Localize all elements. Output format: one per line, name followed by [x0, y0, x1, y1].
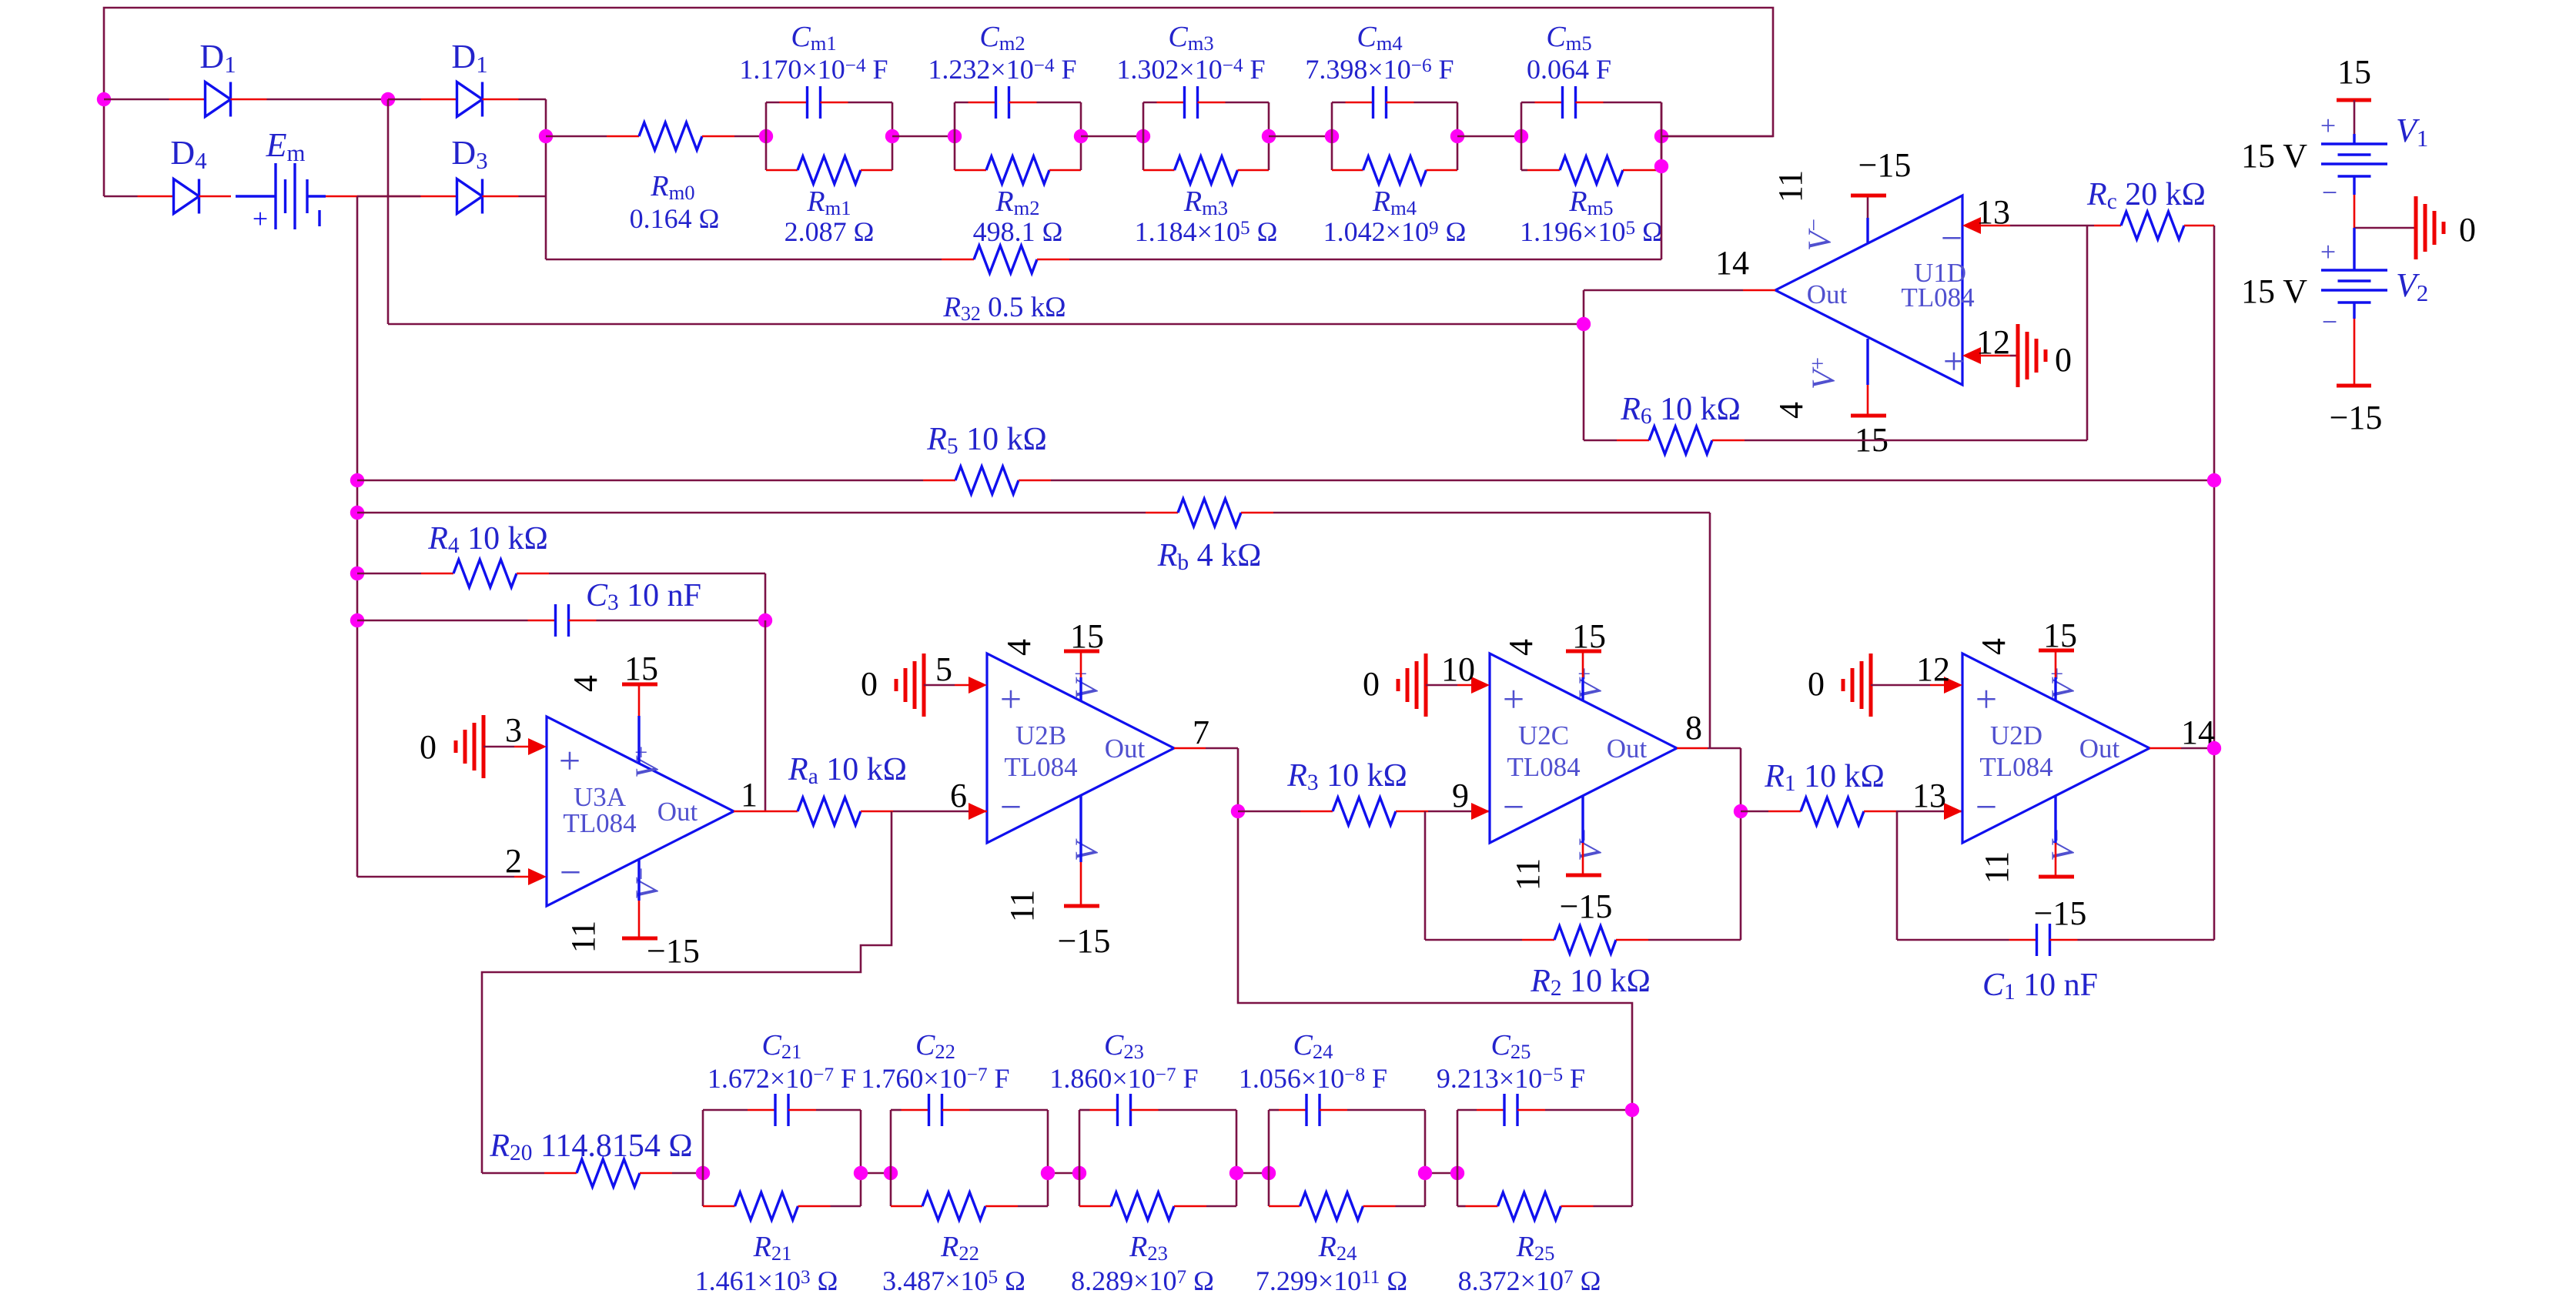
- wire Em minus vertical: [356, 196, 359, 877]
- svg-text:V−: V−: [1069, 829, 1106, 861]
- svg-text:R24: R24: [1318, 1231, 1357, 1265]
- U2C V- supply pin: [1581, 796, 1584, 843]
- svg-text:−: −: [1000, 785, 1022, 828]
- svg-text:Rm4: Rm4: [1372, 186, 1417, 219]
- capacitor Cm3: [1142, 102, 1145, 136]
- svg-text:1.184×105 Ω: 1.184×105 Ω: [1135, 216, 1278, 247]
- resistor R6: [1584, 440, 1617, 442]
- wire C1 left branch: [1896, 811, 1899, 940]
- svg-text:Cm4: Cm4: [1357, 21, 1402, 55]
- svg-text:7.398×10−6 F: 7.398×10−6 F: [1305, 54, 1454, 85]
- node dot bottom cell 2 left: [884, 1166, 898, 1180]
- svg-text:R25: R25: [1516, 1231, 1555, 1265]
- svg-text:1.672×10−7 F: 1.672×10−7 F: [708, 1063, 856, 1094]
- svg-text:V+: V+: [2046, 667, 2082, 700]
- battery V1: [2354, 100, 2356, 134]
- wire node 7 down: [1238, 748, 1632, 1110]
- svg-text:−: −: [560, 851, 581, 894]
- svg-text:D1: D1: [199, 38, 236, 78]
- svg-text:15: 15: [1572, 617, 1606, 655]
- svg-text:Out: Out: [1807, 279, 1848, 309]
- svg-text:1.196×105 Ω: 1.196×105 Ω: [1520, 216, 1663, 247]
- svg-text:Out: Out: [2079, 734, 2120, 764]
- op-amp U2C triangle: [1490, 653, 1677, 843]
- op-amp U1D triangle: [1775, 196, 1962, 385]
- U3A pin 3 wire: [483, 746, 514, 748]
- junction dot C3 right: [758, 613, 772, 627]
- svg-text:+: +: [2320, 236, 2336, 267]
- svg-text:Out: Out: [1607, 734, 1648, 764]
- resistor Ra: [765, 811, 798, 813]
- svg-text:C3 10 nF: C3 10 nF: [586, 578, 701, 615]
- svg-text:D3: D3: [451, 134, 487, 174]
- svg-text:6: 6: [950, 777, 967, 814]
- svg-text:1.042×109 Ω: 1.042×109 Ω: [1323, 216, 1467, 247]
- svg-text:U2D: U2D: [1990, 720, 2042, 750]
- svg-text:0: 0: [420, 728, 437, 766]
- svg-text:7.299×1011 Ω: 7.299×1011 Ω: [1256, 1265, 1407, 1296]
- svg-text:R1 10 kΩ: R1 10 kΩ: [1764, 759, 1885, 796]
- svg-text:15: 15: [624, 650, 658, 687]
- U3A output wire: [734, 811, 765, 813]
- U1D V- supply pin: [1866, 218, 1868, 242]
- svg-text:11: 11: [564, 921, 602, 953]
- resistor R1: [1741, 811, 1768, 813]
- wire bottom ladder link 2: [1048, 1172, 1079, 1175]
- svg-text:−: −: [2322, 177, 2337, 208]
- wire R6 to Rc node: [2086, 226, 2089, 440]
- svg-text:2.087 Ω: 2.087 Ω: [785, 216, 875, 247]
- svg-text:15 V: 15 V: [2241, 137, 2307, 175]
- svg-text:Rm0: Rm0: [650, 170, 694, 204]
- node dot ladder cell 5 right: [1654, 129, 1668, 143]
- U3A V- supply pin: [637, 859, 640, 901]
- svg-text:498.1 Ω: 498.1 Ω: [973, 216, 1063, 247]
- svg-text:0: 0: [1363, 665, 1380, 703]
- node dot bottom cell 1 left: [696, 1166, 710, 1180]
- svg-text:15 V: 15 V: [2241, 272, 2307, 310]
- node dot ladder cell 2 right: [1074, 129, 1088, 143]
- resistor Rm5: [1521, 136, 1523, 170]
- junction dot C3 left: [350, 613, 364, 627]
- U3A V+ supply pin: [637, 716, 640, 764]
- resistor Rm1: [765, 136, 768, 170]
- svg-text:−: −: [2322, 306, 2337, 337]
- svg-text:15: 15: [2337, 53, 2371, 91]
- battery Em: [236, 195, 276, 197]
- svg-text:V+: V+: [630, 746, 666, 778]
- svg-text:C25: C25: [1491, 1029, 1531, 1063]
- wire ladder link 1: [892, 135, 955, 138]
- svg-text:8.372×107 Ω: 8.372×107 Ω: [1458, 1265, 1601, 1296]
- node dot bottom cell 3 right: [1229, 1166, 1243, 1180]
- junction dot U1D out to node A wire: [1577, 317, 1591, 331]
- svg-text:8: 8: [1685, 709, 1702, 747]
- capacitor C21: [702, 1110, 704, 1173]
- capacitor C22: [890, 1110, 892, 1173]
- capacitor C24: [1268, 1110, 1270, 1173]
- op-amp U2B triangle: [987, 653, 1174, 843]
- node dot bottom cell 3 left: [1072, 1166, 1086, 1180]
- svg-text:1.461×103 Ω: 1.461×103 Ω: [695, 1265, 838, 1296]
- resistor R5: [357, 480, 923, 482]
- node dot bottom cell 5 left: [1450, 1166, 1464, 1180]
- svg-text:14: 14: [1715, 244, 1749, 282]
- svg-text:1.056×10−8 F: 1.056×10−8 F: [1239, 1063, 1387, 1094]
- svg-text:R6 10 kΩ: R6 10 kΩ: [1620, 392, 1741, 429]
- node dot bottom cell 4 left: [1262, 1166, 1276, 1180]
- svg-text:Cm1: Cm1: [791, 21, 836, 55]
- node dot ladder cell 3 left: [1136, 129, 1150, 143]
- junction dot diode bridge output: [539, 129, 553, 143]
- node dot ladder cell 1 right: [885, 129, 899, 143]
- resistor R3: [1238, 811, 1300, 813]
- svg-text:9: 9: [1452, 777, 1469, 814]
- svg-text:1.760×10−7 F: 1.760×10−7 F: [861, 1063, 1009, 1094]
- wire node 6 branch down: [482, 811, 892, 1173]
- svg-text:15: 15: [1070, 617, 1104, 655]
- node dot bottom cell 5 right: [1625, 1103, 1639, 1117]
- svg-text:TL084: TL084: [1901, 282, 1974, 313]
- svg-text:R21: R21: [753, 1231, 792, 1265]
- resistor Rc: [2094, 225, 2121, 227]
- svg-text:C1 10 nF: C1 10 nF: [1982, 968, 2098, 1004]
- U2C V+ supply pin: [1581, 677, 1584, 701]
- junction dot between D1 diodes: [381, 92, 395, 106]
- wire bottom ladder link 4: [1425, 1172, 1457, 1175]
- svg-text:U2C: U2C: [1518, 720, 1569, 750]
- U2D V- supply pin: [2054, 796, 2056, 843]
- U1D output wire: [1743, 289, 1775, 292]
- svg-text:11: 11: [1003, 890, 1041, 922]
- svg-text:Rm1: Rm1: [806, 186, 851, 219]
- svg-text:TL084: TL084: [563, 808, 636, 838]
- supply rail +15 terminal: [2337, 99, 2371, 102]
- svg-text:V2: V2: [2396, 266, 2428, 306]
- svg-text:V−: V−: [1802, 219, 1838, 251]
- junction dot R5 left: [350, 473, 364, 487]
- svg-text:12: 12: [1976, 323, 2010, 361]
- wire Em to D3: [326, 196, 420, 198]
- wire node A to U1D out: [388, 323, 1584, 326]
- svg-text:−15: −15: [2330, 399, 2383, 436]
- wire ladder link 4: [1457, 135, 1521, 138]
- resistor R2: [1425, 939, 1522, 941]
- svg-text:R2 10 kΩ: R2 10 kΩ: [1530, 964, 1651, 1001]
- svg-text:0: 0: [861, 665, 878, 703]
- svg-text:+: +: [1975, 677, 1997, 720]
- capacitor Cm2: [954, 102, 956, 136]
- op-amp U2D triangle: [1962, 653, 2149, 843]
- junction dot R3 left: [1231, 804, 1245, 818]
- resistor Rb: [357, 512, 1146, 514]
- svg-text:10: 10: [1441, 650, 1475, 688]
- U2D pin 13 arrow: [1944, 811, 1962, 813]
- node dot bottom cell 2 right: [1041, 1166, 1055, 1180]
- capacitor C25: [1457, 1110, 1459, 1173]
- svg-text:Out: Out: [657, 797, 698, 827]
- svg-text:+: +: [1503, 677, 1524, 720]
- resistor R20: [482, 1172, 544, 1175]
- svg-text:−15: −15: [647, 932, 700, 970]
- battery V2: [2353, 228, 2355, 270]
- svg-text:C23: C23: [1104, 1029, 1144, 1063]
- ground at V1 V2 midpoint: [2354, 227, 2416, 229]
- svg-text:C21: C21: [762, 1029, 802, 1063]
- svg-text:5: 5: [935, 650, 952, 688]
- svg-text:15: 15: [2043, 617, 2077, 654]
- resistor R22: [890, 1173, 892, 1206]
- svg-text:2: 2: [505, 842, 522, 880]
- svg-text:+: +: [2320, 110, 2336, 141]
- svg-text:R23: R23: [1129, 1231, 1168, 1265]
- U2C pin 10 wire: [1426, 684, 1457, 687]
- svg-text:−15: −15: [1058, 922, 1111, 960]
- capacitor Cm5: [1521, 102, 1523, 136]
- svg-text:13: 13: [1976, 193, 2010, 231]
- U2D output wire: [2149, 747, 2181, 750]
- ground at U1D pin 12: [2016, 324, 2020, 387]
- U2B pin 6 wire: [969, 811, 987, 813]
- svg-text:V−: V−: [2046, 829, 2082, 861]
- U1D V+ supply pin: [1866, 339, 1868, 385]
- node dot ladder cell 5 left: [1514, 129, 1528, 143]
- wire ladder link 3: [1269, 135, 1332, 138]
- svg-text:Rm5: Rm5: [1568, 186, 1613, 219]
- resistor Rm4: [1331, 136, 1333, 170]
- svg-text:0: 0: [2055, 341, 2072, 379]
- svg-text:V+: V+: [1573, 667, 1609, 700]
- svg-text:4: 4: [1502, 639, 1540, 656]
- svg-text:−: −: [1503, 785, 1524, 828]
- svg-text:R20 114.8154 Ω: R20 114.8154 Ω: [489, 1128, 692, 1165]
- svg-text:7: 7: [1193, 714, 1209, 751]
- supply rail -15 terminal: [2337, 384, 2371, 388]
- svg-text:−: −: [1975, 785, 1997, 828]
- svg-text:R22: R22: [940, 1231, 979, 1265]
- svg-text:4: 4: [1975, 638, 2012, 655]
- svg-text:13: 13: [1912, 777, 1946, 814]
- svg-text:0.164 Ω: 0.164 Ω: [630, 203, 720, 234]
- svg-text:Rm3: Rm3: [1183, 186, 1228, 219]
- node dot ladder cell 4 left: [1325, 129, 1339, 143]
- svg-text:Rm2: Rm2: [995, 186, 1039, 219]
- svg-text:1.232×10−4 F: 1.232×10−4 F: [928, 54, 1076, 85]
- svg-text:0.064 F: 0.064 F: [1527, 54, 1611, 85]
- svg-text:−: −: [1941, 216, 1962, 259]
- svg-text:1.170×10−4 F: 1.170×10−4 F: [739, 54, 888, 85]
- capacitor C1: [1897, 939, 2009, 941]
- svg-text:C22: C22: [915, 1029, 955, 1063]
- svg-text:V+: V+: [1806, 357, 1842, 389]
- wire R2 left branch: [1424, 811, 1427, 940]
- resistor Rm2: [954, 136, 956, 170]
- U2B output wire: [1174, 747, 1206, 750]
- svg-text:V−: V−: [1573, 829, 1609, 861]
- svg-text:0: 0: [2459, 211, 2476, 249]
- svg-text:V+: V+: [1069, 667, 1106, 700]
- svg-text:U2B: U2B: [1015, 720, 1066, 750]
- svg-text:TL084: TL084: [1507, 752, 1580, 782]
- svg-text:V1: V1: [2396, 112, 2428, 152]
- svg-text:3.487×105 Ω: 3.487×105 Ω: [882, 1265, 1025, 1296]
- wire Rb to node 8: [1709, 513, 1711, 748]
- wire right bus: [2213, 226, 2216, 940]
- wire bottom ladder link 3: [1236, 1172, 1269, 1175]
- svg-text:0: 0: [1808, 665, 1825, 703]
- svg-text:1: 1: [741, 776, 758, 814]
- svg-text:9.213×10−5 F: 9.213×10−5 F: [1437, 1063, 1585, 1094]
- diode D3: [420, 196, 422, 198]
- wire R4 right vertical: [764, 573, 767, 620]
- U2C output wire: [1677, 747, 1708, 750]
- capacitor Cm4: [1331, 102, 1333, 136]
- resistor R23: [1079, 1173, 1081, 1206]
- resistor Rm3: [1142, 136, 1145, 170]
- diode D4: [104, 196, 138, 198]
- junction dot top-left node: [97, 92, 111, 106]
- U3A pin 2 wire: [357, 876, 514, 878]
- resistor R32: [546, 259, 942, 261]
- svg-text:C24: C24: [1293, 1029, 1333, 1063]
- svg-text:Out: Out: [1105, 734, 1146, 764]
- wire node A vertical: [387, 99, 390, 324]
- svg-text:−15: −15: [2034, 894, 2087, 932]
- svg-text:R32 0.5 kΩ: R32 0.5 kΩ: [942, 292, 1066, 325]
- svg-text:−15: −15: [1858, 146, 1912, 184]
- svg-text:+: +: [559, 739, 580, 782]
- diode D1 (right): [388, 99, 421, 101]
- resistor R4: [357, 573, 421, 575]
- svg-text:−15: −15: [1560, 887, 1613, 925]
- svg-text:TL084: TL084: [1004, 752, 1077, 782]
- node dot ladder cell 2 left: [948, 129, 962, 143]
- svg-text:R5 10 kΩ: R5 10 kΩ: [926, 422, 1047, 459]
- junction dot ladder right lower: [1654, 159, 1668, 173]
- node dot bottom cell 4 right: [1418, 1166, 1432, 1180]
- svg-text:4: 4: [1772, 402, 1810, 419]
- wire C3 node to U3A out: [764, 620, 767, 811]
- node dot ladder cell 4 right: [1450, 129, 1464, 143]
- U2B V- supply pin: [1079, 796, 1082, 862]
- wire bottom ladder link 1: [861, 1172, 891, 1175]
- svg-text:Em: Em: [266, 126, 306, 166]
- capacitor Cm1: [765, 102, 768, 136]
- svg-text:+: +: [1000, 677, 1022, 720]
- resistor R25: [1457, 1173, 1459, 1206]
- diode D1 (left): [104, 99, 169, 101]
- svg-text:Rb 4 kΩ: Rb 4 kΩ: [1157, 538, 1262, 575]
- svg-text:D4: D4: [170, 134, 206, 174]
- svg-text:11: 11: [1978, 851, 2016, 884]
- U2C pin 9 arrow: [1471, 811, 1490, 813]
- svg-text:R3 10 kΩ: R3 10 kΩ: [1286, 758, 1407, 795]
- wire top rail: [104, 8, 1773, 196]
- svg-text:3: 3: [505, 711, 522, 749]
- svg-text:11: 11: [1509, 858, 1547, 891]
- U1D pin 12 input: [1962, 347, 1981, 364]
- svg-text:Cm2: Cm2: [979, 21, 1025, 55]
- svg-text:D1: D1: [451, 38, 487, 78]
- svg-text:Ra 10 kΩ: Ra 10 kΩ: [788, 752, 907, 789]
- svg-text:Cm3: Cm3: [1168, 21, 1213, 55]
- node dot ladder cell 1 left: [759, 129, 773, 143]
- capacitor C23: [1079, 1110, 1081, 1173]
- resistor Rm0: [546, 135, 607, 138]
- svg-text:Cm5: Cm5: [1546, 21, 1591, 55]
- svg-text:8.289×107 Ω: 8.289×107 Ω: [1071, 1265, 1214, 1296]
- svg-text:+: +: [253, 203, 268, 234]
- U2D V+ supply pin: [2054, 677, 2056, 701]
- svg-text:12: 12: [1916, 650, 1950, 688]
- svg-text:TL084: TL084: [1979, 752, 2052, 782]
- svg-text:+: +: [1943, 339, 1965, 383]
- junction dot R5 right: [2207, 473, 2221, 487]
- svg-text:V−: V−: [630, 867, 666, 900]
- junction dot U2D out: [2207, 741, 2221, 755]
- U2D pin 12 wire: [1871, 684, 1930, 687]
- capacitor C3: [357, 620, 528, 622]
- node dot ladder cell 3 right: [1262, 129, 1276, 143]
- U2B pin 5 wire: [924, 684, 955, 687]
- wire ladder right node: [1661, 135, 1773, 138]
- U2B V+ supply pin: [1079, 677, 1082, 701]
- node dot bottom cell 1 right: [854, 1166, 868, 1180]
- svg-text:4: 4: [567, 675, 604, 692]
- U1D pin 13 input: [1962, 217, 1981, 234]
- junction dot Rb left: [350, 506, 364, 520]
- op-amp U3A triangle: [547, 717, 734, 906]
- svg-text:R4 10 kΩ: R4 10 kΩ: [427, 521, 548, 558]
- svg-text:4: 4: [1000, 639, 1038, 656]
- wire ladder link 2: [1081, 135, 1143, 138]
- svg-text:Rc 20 kΩ: Rc 20 kΩ: [2086, 177, 2206, 214]
- junction dot R1 left: [1734, 804, 1748, 818]
- svg-text:11: 11: [1771, 170, 1809, 202]
- svg-text:1.860×10−7 F: 1.860×10−7 F: [1049, 1063, 1198, 1094]
- resistor R21: [702, 1173, 704, 1206]
- wire right side of diode bridge: [545, 99, 547, 259]
- resistor R24: [1268, 1173, 1270, 1206]
- junction dot R4 left: [350, 567, 364, 580]
- svg-text:1.302×10−4 F: 1.302×10−4 F: [1116, 54, 1265, 85]
